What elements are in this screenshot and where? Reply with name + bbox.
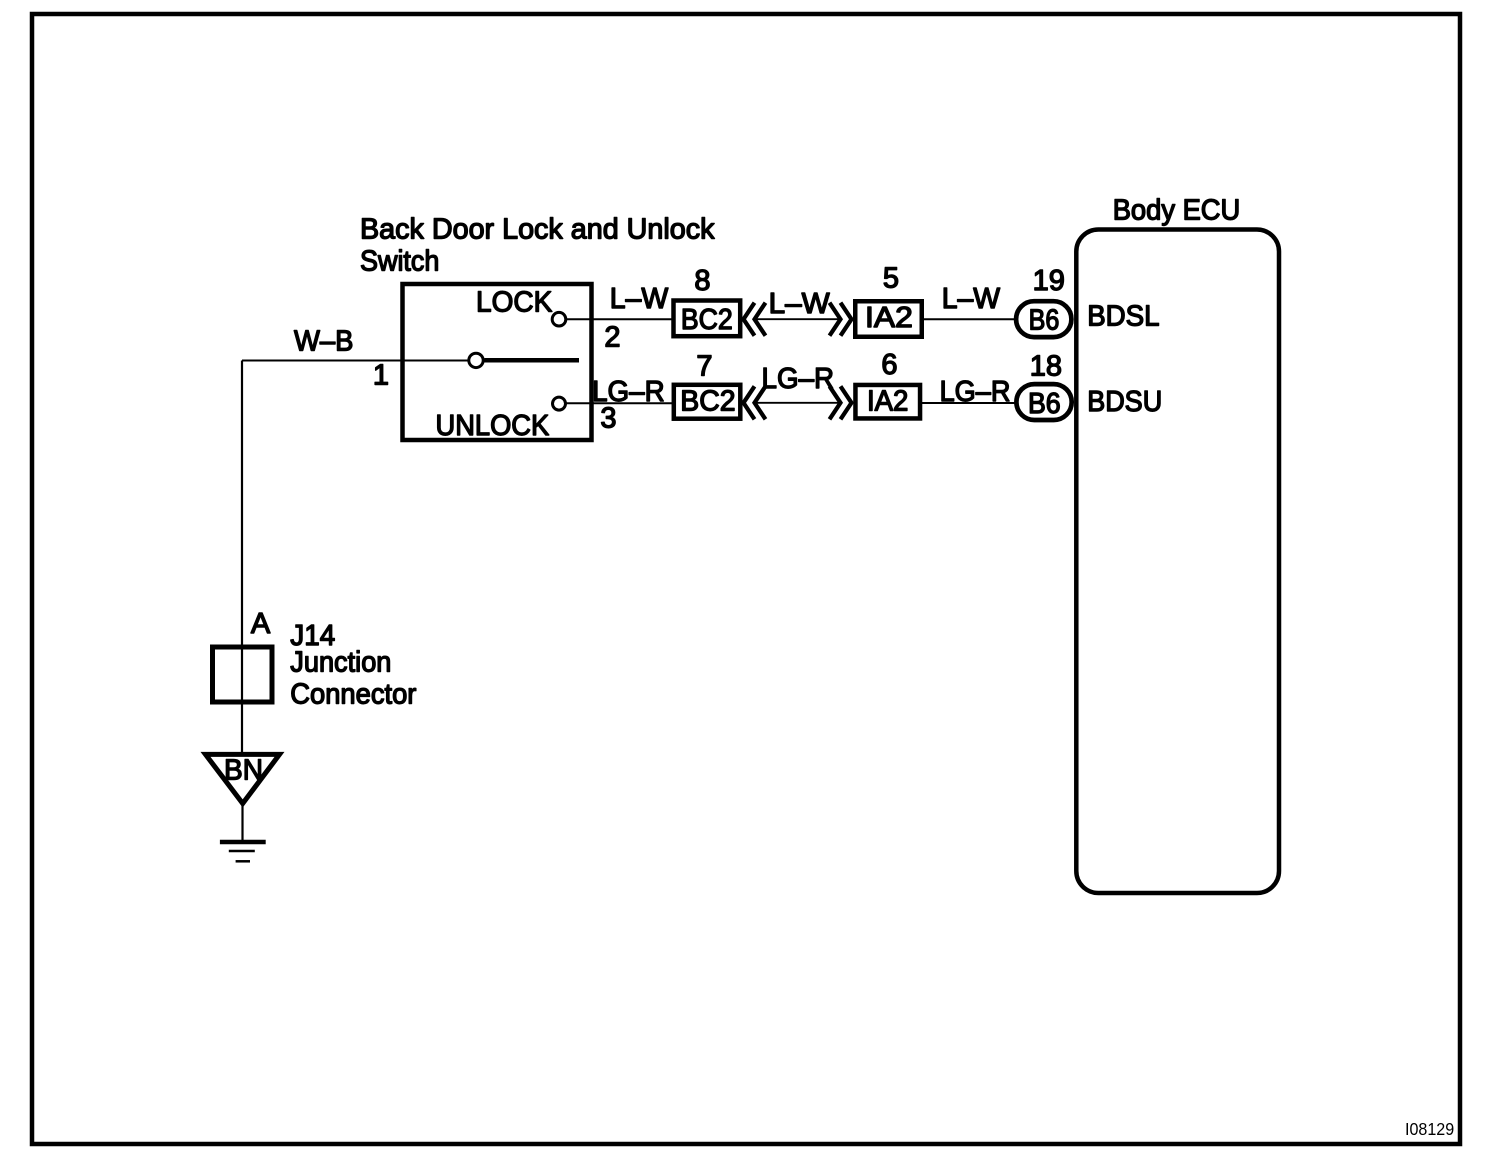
svg-text:LG–R: LG–R bbox=[762, 363, 835, 395]
wire W-B horizontal to switch pin 1 bbox=[242, 360, 469, 362]
svg-text:L–W: L–W bbox=[610, 283, 669, 315]
wire LG-R from UNLOCK contact to BC2 bbox=[566, 402, 673, 404]
switch S1 box bbox=[403, 284, 592, 440]
svg-text:UNLOCK: UNLOCK bbox=[436, 410, 550, 442]
connector IA2 row2 bbox=[855, 385, 920, 419]
Body ECU box bbox=[1076, 230, 1279, 894]
svg-text:A: A bbox=[251, 608, 271, 640]
svg-text:LOCK: LOCK bbox=[476, 286, 553, 318]
svg-text:LG–R: LG–R bbox=[940, 376, 1011, 408]
harness chevrons before IA2 row2 bbox=[830, 386, 852, 419]
wire L-W from IA2 to B6 row1 bbox=[922, 318, 1016, 320]
harness chevrons before IA2 row1 bbox=[830, 303, 852, 336]
svg-text:18: 18 bbox=[1030, 351, 1062, 383]
svg-text:BDSL: BDSL bbox=[1087, 301, 1159, 333]
junction connector J14 box bbox=[213, 647, 273, 702]
svg-text:W–B: W–B bbox=[294, 326, 354, 358]
wire from BN to ground bbox=[241, 805, 243, 842]
svg-text:L–W: L–W bbox=[769, 288, 831, 320]
svg-text:Body ECU: Body ECU bbox=[1113, 195, 1241, 227]
connector BC2 row2 bbox=[674, 385, 741, 419]
svg-text:B6: B6 bbox=[1029, 304, 1060, 336]
svg-text:IA2: IA2 bbox=[867, 385, 909, 417]
svg-text:6: 6 bbox=[881, 349, 897, 381]
harness chevrons after BC2 row1 bbox=[744, 303, 766, 336]
svg-text:B6: B6 bbox=[1028, 388, 1061, 420]
svg-text:I08129: I08129 bbox=[1405, 1119, 1454, 1139]
ground symbol bbox=[220, 842, 266, 861]
svg-text:19: 19 bbox=[1033, 265, 1065, 297]
connector BC2 row1 bbox=[674, 301, 741, 337]
harness chevrons after BC2 row2 bbox=[744, 386, 766, 419]
svg-text:1: 1 bbox=[373, 360, 389, 392]
svg-text:BDSU: BDSU bbox=[1087, 386, 1162, 418]
label J14 Junction Connector bbox=[290, 620, 416, 711]
svg-text:BC2: BC2 bbox=[681, 304, 733, 336]
switch UNLOCK contact bbox=[553, 397, 566, 410]
wire LG-R between connectors row2 bbox=[755, 402, 839, 404]
wire LG-R from IA2 to B6 row2 bbox=[920, 402, 1016, 404]
svg-text:BN: BN bbox=[224, 755, 263, 787]
svg-text:Connector: Connector bbox=[290, 679, 416, 711]
svg-text:LG–R: LG–R bbox=[592, 376, 665, 408]
wire L-W between connectors row1 bbox=[755, 318, 839, 320]
connector IA2 row1 bbox=[855, 301, 922, 337]
svg-text:L–W: L–W bbox=[942, 283, 1001, 315]
ground triangle BN bbox=[206, 754, 280, 803]
svg-text:8: 8 bbox=[694, 265, 710, 297]
connector B6 row1 bbox=[1016, 301, 1071, 337]
svg-text:BC2: BC2 bbox=[680, 385, 735, 417]
switch arm bbox=[485, 358, 580, 363]
wire W-B vertical down to junction connector and BN bbox=[241, 361, 243, 754]
svg-text:Junction: Junction bbox=[290, 647, 391, 679]
svg-text:Switch: Switch bbox=[360, 246, 439, 278]
svg-text:5: 5 bbox=[883, 263, 899, 295]
svg-text:7: 7 bbox=[696, 351, 712, 383]
switch common terminal bbox=[469, 353, 483, 367]
svg-text:Back Door Lock and Unlock: Back Door Lock and Unlock bbox=[360, 214, 715, 246]
wire L-W from LOCK contact to BC2 bbox=[566, 318, 672, 320]
switch LOCK contact bbox=[552, 312, 566, 326]
svg-text:IA2: IA2 bbox=[865, 302, 913, 334]
svg-text:2: 2 bbox=[604, 321, 620, 353]
label: Back Door Lock and Unlock Switch bbox=[360, 214, 715, 278]
connector B6 row2 bbox=[1016, 384, 1071, 420]
